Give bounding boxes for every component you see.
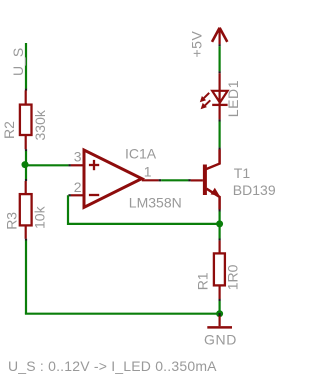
svg-text:BD139: BD139 xyxy=(233,182,276,198)
svg-text:T1: T1 xyxy=(234,165,251,181)
pin tick T1 base xyxy=(188,179,191,181)
svg-text:R3: R3 xyxy=(3,212,19,230)
svg-text:R2: R2 xyxy=(1,121,17,139)
resistor R2 xyxy=(20,90,32,149)
pin tick op-amp output xyxy=(159,179,162,181)
wire U_S net vertical xyxy=(25,43,27,89)
pin tick GND xyxy=(219,313,221,316)
svg-text:LED1: LED1 xyxy=(225,80,241,117)
svg-text:10k: 10k xyxy=(31,205,47,229)
wire +5V to LED xyxy=(219,46,221,71)
wire R1 to node C xyxy=(219,301,221,314)
pin tick R2 bottom xyxy=(25,149,27,151)
svg-text:U_S: U_S xyxy=(10,47,26,76)
wire bottom rail horizontal xyxy=(25,313,220,315)
op-amp U1 IC1A xyxy=(71,150,159,207)
pin tick T1 emitter xyxy=(219,209,221,211)
svg-text:IC1A: IC1A xyxy=(125,145,157,161)
svg-text:U_S : 0..12V -> I_LED 0..350mA: U_S : 0..12V -> I_LED 0..350mA xyxy=(8,358,217,374)
pin tick R1 bottom xyxy=(219,299,221,301)
svg-text:R1: R1 xyxy=(195,272,211,290)
wire node B to R1 xyxy=(219,224,221,239)
pin tick R3 bottom xyxy=(25,239,27,241)
wire R3 to bottom rail xyxy=(25,241,27,314)
wire R2 to node A xyxy=(25,151,27,165)
pin tick T1 collector xyxy=(219,147,221,149)
junction node A xyxy=(22,161,29,168)
svg-text:330k: 330k xyxy=(32,109,48,140)
wire node A to R3 xyxy=(25,165,27,180)
pin tick R2 top xyxy=(25,89,27,91)
svg-text:2: 2 xyxy=(74,179,82,195)
transistor Q1 T1 xyxy=(191,149,220,209)
pin tick R1 top xyxy=(219,239,221,241)
svg-text:3: 3 xyxy=(74,149,82,165)
resistor R1 xyxy=(214,241,225,299)
svg-text:1R0: 1R0 xyxy=(225,264,241,290)
resistor R3 xyxy=(20,181,32,239)
svg-text:1: 1 xyxy=(144,164,152,180)
LED emission arrow 1 xyxy=(200,93,209,102)
pin tick LED anode xyxy=(219,71,221,73)
pin tick op-amp pin 3 xyxy=(68,164,71,166)
pin tick +5V xyxy=(219,44,221,46)
wire feedback pin2 down xyxy=(68,195,220,224)
ground GND symbol xyxy=(207,316,232,327)
wire emitter to node B xyxy=(219,211,221,224)
pin tick op-amp pin 2 xyxy=(68,194,71,196)
svg-text:LM358N: LM358N xyxy=(129,194,182,210)
wire LED to collector xyxy=(219,122,221,148)
svg-text:GND: GND xyxy=(204,332,237,348)
junction node C xyxy=(216,310,223,317)
pin tick R3 top xyxy=(25,179,27,181)
LED emission arrow 2 xyxy=(201,100,211,109)
LED LED1 xyxy=(212,73,227,119)
wire output to base xyxy=(161,179,188,181)
junction node B xyxy=(216,220,223,227)
wire node A to pin 3 xyxy=(25,164,68,166)
pin tick LED cathode xyxy=(219,119,221,121)
supply +5V arrow xyxy=(212,28,227,45)
svg-text:+5V: +5V xyxy=(189,31,205,58)
